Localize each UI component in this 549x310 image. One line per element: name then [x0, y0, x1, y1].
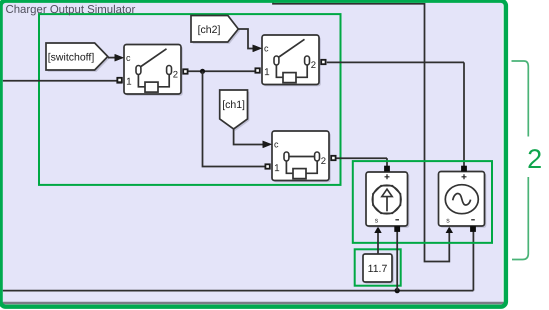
from tag [ch1] [220, 90, 250, 131]
wire junction A to SW3 port 1 [203, 71, 266, 166]
annotation label 2 [527, 144, 542, 174]
junction dot B [395, 288, 400, 293]
bottom rail wire [3, 290, 474, 292]
wire SW3.2 to current source plus [336, 157, 387, 159]
svg-text:[ch2]: [ch2] [198, 24, 221, 36]
wire vertical into voltage source plus [463, 62, 465, 166]
svg-text:11.7: 11.7 [368, 263, 388, 275]
selection box around switches [39, 14, 341, 185]
wire vertical into current source plus [386, 158, 388, 166]
switch SW1 [115, 45, 188, 96]
svg-text:[switchoff]: [switchoff] [48, 51, 95, 63]
current source CS [366, 166, 409, 231]
wire vertical voltage source minus to bottom rail [472, 232, 474, 291]
from tag [ch2] [191, 16, 240, 44]
constant 11.7 [363, 254, 394, 284]
svg-text:Charger Output Simulator: Charger Output Simulator [5, 4, 135, 16]
selection box around sources [353, 161, 492, 243]
title Charger Output Simulator [5, 4, 135, 16]
wire SW2.2 to voltage source plus [327, 61, 464, 63]
wire ch1 to SW3.c [234, 129, 272, 148]
wire constant to current source s input [374, 226, 381, 253]
switch SW2 [253, 35, 326, 86]
wire SW1.2 to SW2.1 [188, 70, 256, 72]
wire input to SW1 port 1 [3, 78, 122, 82]
switch SW3 [263, 131, 336, 182]
svg-text:[ch1]: [ch1] [222, 99, 245, 111]
wire top boundary to voltage source s input [273, 0, 453, 262]
wire current source minus to bottom rail [396, 232, 398, 291]
svg-text:s: s [375, 217, 379, 224]
wire switchoff to SW1.c [108, 54, 124, 61]
svg-text:s: s [446, 217, 450, 224]
svg-text:2: 2 [527, 144, 542, 174]
voltage source VS [439, 166, 487, 231]
junction dot A [200, 69, 205, 74]
selection box around constant [355, 249, 401, 285]
subsystem bottom edge [3, 302, 505, 305]
from tag [switchoff] [46, 43, 110, 72]
bracket annotation [512, 61, 529, 260]
wire ch2 to SW2.c [238, 29, 262, 52]
